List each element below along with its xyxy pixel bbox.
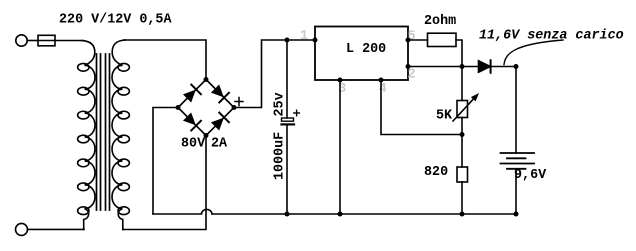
- bridge top vertex junction: [204, 77, 209, 82]
- svg-text:L 200: L 200: [346, 42, 386, 57]
- node R2 bottom rail: [460, 212, 465, 217]
- wire bridge plus to top DC rail: [234, 40, 315, 108]
- node C1 bottom rail: [285, 212, 290, 217]
- potentiometer P1 5K: [457, 101, 468, 118]
- node U1 pin1: [313, 38, 318, 43]
- wire secondary bottom to bridge AC bottom: [123, 136, 206, 230]
- svg-text:2: 2: [408, 68, 416, 83]
- svg-text:2A: 2A: [211, 136, 228, 151]
- svg-text:80V: 80V: [181, 136, 206, 151]
- terminal J1 (mains input top): [16, 35, 27, 46]
- wire J2 to primary bottom: [28, 228, 85, 230]
- node U1 pin4: [379, 78, 384, 83]
- bridge plus sign: [235, 98, 243, 106]
- svg-text:220 V/12V 0,5A: 220 V/12V 0,5A: [59, 12, 172, 27]
- bridge diode D1 (left-to-top): [182, 85, 201, 104]
- capacitor C1 wire top: [286, 40, 288, 118]
- wire output node to diode D5: [462, 66, 479, 68]
- capacitor C1 wire bottom: [286, 124, 288, 214]
- svg-text:25v: 25v: [273, 92, 288, 116]
- op-amp U1 L200 regulator box: [315, 27, 408, 81]
- fuse F1: [38, 35, 55, 46]
- node pot-R2 junction: [460, 132, 465, 137]
- bridge right vertex junction: [232, 105, 237, 110]
- wire D5 to battery top: [490, 66, 516, 68]
- bridge diode D4 (bottom-to-right): [210, 113, 229, 132]
- node battery top junction: [514, 64, 519, 69]
- node pin3 rail: [338, 212, 343, 217]
- wire J1 to fuse: [27, 40, 38, 42]
- transformer T1 core: [96, 54, 98, 210]
- node output junction: [460, 64, 465, 69]
- node C1 top: [285, 38, 290, 43]
- bridge diode D2 (top-to-right): [210, 84, 229, 103]
- node U1 pin2: [406, 64, 411, 69]
- terminal J2 (mains input bottom): [16, 223, 28, 235]
- node battery bottom rail: [514, 212, 519, 217]
- wire U1 pin5 to R1: [408, 39, 428, 41]
- wire R2 to ground rail: [461, 182, 463, 214]
- svg-text:2ohm: 2ohm: [424, 14, 456, 29]
- wire fuse to transformer primary: [55, 40, 83, 42]
- wire R1 to output node: [456, 40, 462, 67]
- wire U1 pin4 to pot junction: [381, 80, 462, 135]
- bottom rail (ground) with hop over AC wire: [153, 209, 516, 214]
- svg-text:9,6V: 9,6V: [514, 168, 547, 183]
- wire P1 to junction: [461, 118, 463, 168]
- wire U1 pin3 to ground rail: [339, 80, 341, 214]
- capacitor C1 electrolytic plates: [282, 118, 294, 121]
- svg-text:1000uF: 1000uF: [273, 132, 288, 180]
- diode D5: [479, 61, 491, 72]
- bridge bottom vertex junction: [204, 133, 209, 138]
- potentiometer P1 wire top: [461, 67, 463, 101]
- bridge left vertex junction: [176, 105, 181, 110]
- resistor R1 2ohm: [428, 33, 457, 46]
- battery B1 wire bottom: [515, 169, 517, 214]
- capacitor C1 plus sign: [294, 110, 300, 116]
- wire U1 pin2 to output node: [408, 66, 462, 68]
- node U1 pin5: [406, 38, 411, 43]
- wire secondary top to bridge AC top: [124, 40, 206, 80]
- transformer T1 secondary winding: [112, 40, 125, 230]
- resistor R2 820: [457, 167, 468, 182]
- battery B1 wire top: [515, 67, 517, 154]
- wire bridge minus to bottom rail: [153, 108, 178, 215]
- bridge diode D3 (left-to-bottom): [182, 112, 201, 131]
- transformer T1 primary winding: [82, 41, 95, 230]
- battery B1 plates: [501, 153, 535, 169]
- node U1 pin3: [338, 78, 343, 83]
- svg-text:820: 820: [424, 165, 448, 180]
- svg-text:5K: 5K: [436, 108, 453, 123]
- bridge rectifier diamond: [178, 80, 234, 136]
- svg-text:4: 4: [379, 82, 387, 97]
- callout leader curve: [504, 40, 563, 65]
- svg-text:1: 1: [300, 29, 308, 44]
